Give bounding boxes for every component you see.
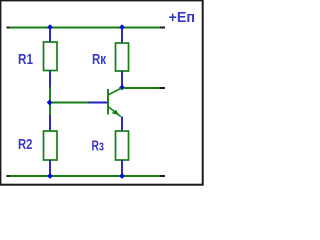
node J6: bottom rail / Rz junction xyxy=(119,173,125,179)
wire: base horizontal green segment xyxy=(50,102,89,104)
svg-text:Rз: Rз xyxy=(92,139,105,155)
wire: emitter to Rz top xyxy=(121,117,123,132)
wire: Rz bottom to bottom rail xyxy=(121,160,123,176)
resistor Rk xyxy=(116,43,129,71)
wire: base node to R2 top xyxy=(49,115,51,132)
wire: Rk branch top lead xyxy=(121,28,123,44)
svg-text:Rк: Rк xyxy=(92,52,107,68)
wire: collector output to the right xyxy=(124,87,165,89)
node J2: rail / Rk branch junction xyxy=(119,24,125,30)
svg-text:R1: R1 xyxy=(18,52,33,68)
wire: bottom common rail xyxy=(7,175,166,177)
svg-text:+Еп: +Еп xyxy=(169,10,196,26)
node J5: bottom rail / R2 junction xyxy=(47,173,53,179)
resistor Rz xyxy=(116,131,129,160)
node J1: rail / R1 branch junction xyxy=(47,24,53,30)
resistor R2 xyxy=(44,131,58,160)
wire: base horizontal blue segment to transistor xyxy=(89,102,108,104)
wire: R2 bottom to bottom rail xyxy=(49,160,51,176)
resistor R1 xyxy=(44,42,58,71)
wire: R1 bottom lead xyxy=(49,71,51,89)
svg-text:R2: R2 xyxy=(18,137,33,153)
node A: base node junction xyxy=(47,100,53,106)
wire: left branch vertical green segment through base node xyxy=(49,87,51,116)
wire: top power rail xyxy=(7,27,166,29)
wire: Rk bottom to collector node xyxy=(121,71,123,88)
transistor VT1 (NPN) xyxy=(108,88,122,117)
node C: collector junction xyxy=(119,85,125,91)
wire: J1 to R1 top xyxy=(49,28,51,44)
